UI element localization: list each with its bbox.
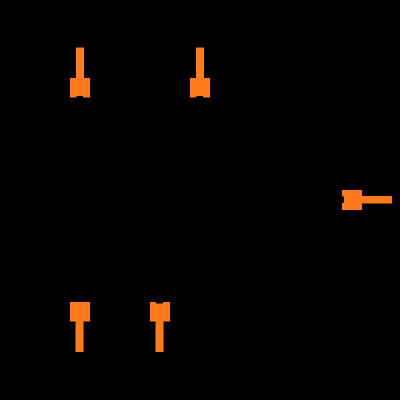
pin 1 (top-left) — [70, 48, 90, 98]
pin 2 (top-right) — [190, 48, 210, 98]
pin 4 (bottom-left) — [70, 302, 90, 352]
pin 3 (right) — [342, 190, 392, 210]
pin 5 (bottom-right) — [150, 302, 170, 352]
